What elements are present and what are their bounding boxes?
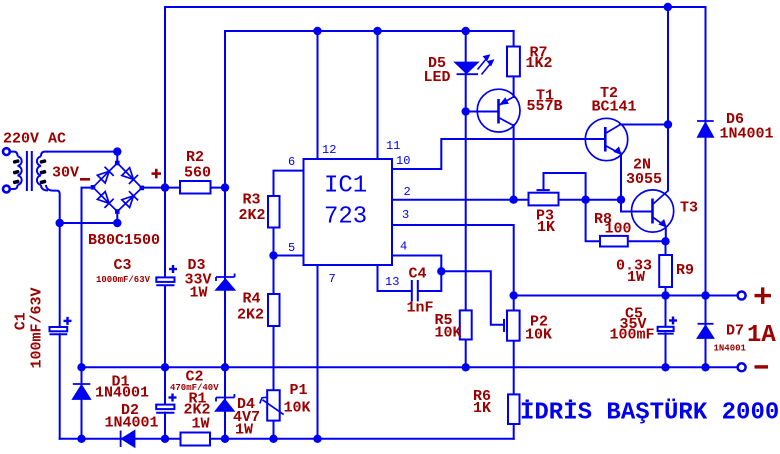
transistor T3 <box>632 190 674 232</box>
svg-text:1N4001: 1N4001 <box>720 126 774 143</box>
IC1 box <box>304 159 393 265</box>
transistor T2 <box>585 118 627 160</box>
svg-text:6: 6 <box>288 155 295 169</box>
svg-text:5: 5 <box>288 241 295 255</box>
diode D7 <box>698 324 714 338</box>
potentiometer P3 <box>529 190 559 205</box>
wire bottom rail y439 <box>60 438 514 440</box>
transformer winding marks <box>13 159 47 184</box>
wire pin5 stub <box>274 255 304 257</box>
diode D1 <box>73 384 91 399</box>
svg-text:1nF: 1nF <box>407 300 434 317</box>
wire R2 leads <box>165 187 225 189</box>
wire negative rail y367 <box>82 366 738 368</box>
svg-text:12: 12 <box>322 143 336 157</box>
svg-text:1N4001: 1N4001 <box>714 344 747 354</box>
wire LED / T1 base vertical x465.7 <box>465 31 467 367</box>
wire R7 drop from rail <box>513 31 515 47</box>
svg-text:11: 11 <box>386 139 400 153</box>
wire pin13 <box>378 265 442 291</box>
wire pin4 <box>392 256 504 325</box>
svg-text:R3: R3 <box>243 192 261 209</box>
wire transformer secondary bottom to x59.7 <box>46 186 60 439</box>
svg-text:7: 7 <box>329 272 336 286</box>
wire P3 node to R8 <box>586 200 600 242</box>
wire pin12 <box>317 31 319 159</box>
wire C5 leads <box>665 296 667 368</box>
svg-text:T3: T3 <box>680 200 698 217</box>
zener D4 <box>216 394 235 411</box>
svg-text:D7: D7 <box>726 323 744 340</box>
wire T1 collector down <box>513 125 515 200</box>
wire pin3 <box>392 225 514 296</box>
capacitor C3 <box>156 277 174 285</box>
svg-text:1N4001: 1N4001 <box>95 385 149 402</box>
svg-text:1A: 1A <box>747 322 776 349</box>
wire R9 leads <box>665 241 667 295</box>
svg-text:C1: C1 <box>12 312 29 330</box>
svg-text:13: 13 <box>385 275 399 289</box>
bridge rectifier B80C1500 <box>93 163 142 212</box>
wire pin10 <box>392 139 605 169</box>
output plus sign <box>755 287 772 304</box>
svg-text:1W: 1W <box>627 269 645 286</box>
wire bridge plus stub <box>142 187 165 189</box>
output minus sign <box>755 365 769 368</box>
plus sign C1 <box>64 317 72 325</box>
wire P2 bottom to R6 <box>513 341 515 395</box>
svg-text:B80C1500: B80C1500 <box>88 232 160 249</box>
potentiometer P1 <box>260 390 284 420</box>
resistor R2 <box>180 181 211 194</box>
resistor R9 <box>659 255 672 287</box>
wire R6 to bottom rail <box>513 424 515 439</box>
wire P3 right leads <box>559 199 622 201</box>
wire bridge top <box>48 152 117 163</box>
resistor R3 <box>268 196 280 228</box>
svg-text:1N4001: 1N4001 <box>105 415 159 432</box>
svg-text:R4: R4 <box>243 291 261 308</box>
wire T2 emitter down <box>621 154 652 212</box>
bridge diode top-right <box>122 168 138 184</box>
svg-text:10K: 10K <box>525 327 552 344</box>
bridge diode top-left <box>97 167 113 183</box>
wire P2 top lead <box>513 296 515 311</box>
svg-text:C3: C3 <box>114 257 132 274</box>
wire left main vertical x165 <box>164 7 166 439</box>
wire pin6 stub <box>274 171 304 196</box>
wire pin11 <box>377 31 379 159</box>
output terminal - <box>738 363 746 371</box>
wire pin7 <box>317 265 319 439</box>
wire bridge minus vertical x81.5 <box>82 188 94 439</box>
resistor R4 <box>268 294 280 326</box>
svg-text:557B: 557B <box>527 98 563 115</box>
zener D3 <box>216 274 235 290</box>
svg-text:30V: 30V <box>52 165 79 182</box>
wire plus rail y295.5 <box>514 295 738 297</box>
svg-text:1K: 1K <box>473 400 491 417</box>
capacitor C1 <box>50 327 68 334</box>
bridge diode bottom-left <box>97 192 113 208</box>
resistor R7 <box>507 47 520 77</box>
svg-text:R9: R9 <box>676 262 694 279</box>
svg-text:İDRİS BAŞTÜRK 2000: İDRİS BAŞTÜRK 2000 <box>520 399 779 427</box>
wire T3 emitter to R9 node <box>665 227 667 242</box>
LED D5 <box>456 55 494 75</box>
wire right vertical x705.5 <box>705 7 707 367</box>
wire pin2 <box>392 199 529 201</box>
svg-text:R2: R2 <box>186 149 204 166</box>
wire x668 top rail to T3 collector <box>667 7 669 191</box>
svg-text:LED: LED <box>424 69 451 86</box>
svg-text:723: 723 <box>324 204 367 231</box>
wire R7 to T1 emitter <box>513 76 515 97</box>
output terminal + <box>738 292 746 300</box>
svg-text:IC1: IC1 <box>324 173 367 200</box>
svg-text:1K: 1K <box>537 219 555 236</box>
potentiometer P2 <box>504 311 520 341</box>
bridge plus sign <box>152 169 162 179</box>
wire T1 base stub <box>466 111 498 113</box>
capacitor C2 <box>156 405 174 413</box>
svg-text:4: 4 <box>400 240 407 254</box>
resistor R6 <box>508 394 520 424</box>
wire bridge bottom <box>60 212 118 224</box>
resistor R1 <box>181 433 211 446</box>
capacitor C5 <box>658 327 674 334</box>
capacitor C4 <box>412 280 418 301</box>
wire T2 collector to x668 <box>620 124 668 126</box>
wire P1 to bottom rail <box>273 421 275 439</box>
wire vertical x225 <box>224 31 226 439</box>
svg-text:1W: 1W <box>190 285 208 302</box>
wire P3 wiper loop <box>544 173 586 200</box>
transistor T1 <box>477 89 520 132</box>
wire R3-R4 node vertical <box>273 228 275 295</box>
svg-text:10K: 10K <box>435 325 462 342</box>
svg-text:100mF: 100mF <box>610 327 655 344</box>
svg-text:3: 3 <box>402 208 409 222</box>
svg-text:100: 100 <box>605 221 632 238</box>
svg-text:3055: 3055 <box>626 171 662 188</box>
svg-text:BC141: BC141 <box>592 99 637 116</box>
svg-text:2K2: 2K2 <box>239 207 266 224</box>
svg-text:1K2: 1K2 <box>526 55 553 72</box>
plus sign C3 <box>169 265 177 273</box>
resistor R8 <box>600 236 628 247</box>
plus sign C5 <box>669 317 677 325</box>
wire R4 to P1 <box>273 326 275 390</box>
resistor R5 <box>460 310 472 339</box>
svg-text:10K: 10K <box>284 400 311 417</box>
svg-text:2: 2 <box>404 185 411 199</box>
svg-text:100mF/63V: 100mF/63V <box>29 287 46 368</box>
svg-text:1000mF/63V: 1000mF/63V <box>96 275 151 285</box>
svg-text:560: 560 <box>184 165 211 182</box>
bridge minus sign <box>80 178 90 181</box>
wire top rail <box>165 6 706 8</box>
transformer TR1 <box>3 148 48 192</box>
wire R8 to T3 emitter node <box>628 240 666 242</box>
svg-text:P1: P1 <box>290 382 308 399</box>
bridge diode bottom-right <box>122 191 138 207</box>
diode D6 <box>697 121 714 137</box>
svg-text:1W: 1W <box>235 422 253 439</box>
svg-text:220V AC: 220V AC <box>3 131 66 148</box>
diode D2 <box>121 431 135 448</box>
plus sign C2 <box>169 394 177 402</box>
svg-text:1W: 1W <box>192 416 210 433</box>
wire inner top rail <box>225 30 514 32</box>
svg-text:C4: C4 <box>409 266 427 283</box>
svg-text:2K2: 2K2 <box>237 307 264 324</box>
svg-text:10: 10 <box>396 154 410 168</box>
